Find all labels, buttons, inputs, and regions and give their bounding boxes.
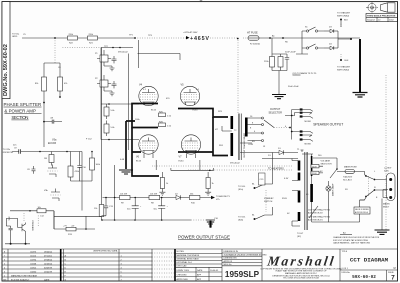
switch S1 mains pole b	[302, 44, 324, 49]
wire heater stubs	[144, 154, 200, 170]
svg-text:UNSPECIFIED Mk2 DATA: UNSPECIFIED Mk2 DATA	[93, 250, 118, 253]
diode D4	[324, 44, 338, 50]
svg-text:C6115: C6115	[30, 255, 37, 257]
node TO S.B. S2a	[238, 184, 265, 192]
svg-text:10k 5W: 10k 5W	[150, 194, 157, 196]
resistor R11b cathode V7	[205, 172, 215, 195]
svg-text:TO STANDBY: TO STANDBY	[337, 12, 351, 15]
svg-text:C5905: C5905	[30, 267, 37, 269]
svg-text:50uF+50uF: 50uF+50uF	[285, 52, 296, 54]
svg-text:59X-60-02: 59X-60-02	[352, 275, 376, 280]
svg-text:NEON IS WIRED: NEON IS WIRED	[355, 209, 370, 211]
svg-text:L=230V: L=230V	[384, 168, 392, 170]
svg-text:DATE: DATE	[197, 269, 203, 272]
svg-text:50uF+50uF: 50uF+50uF	[288, 86, 299, 88]
svg-text:EXTERNAL R=1: EXTERNAL R=1	[177, 261, 193, 264]
wire grid V4	[101, 103, 139, 105]
capacitor C9 input	[12, 145, 40, 154]
standby switch label	[259, 173, 275, 203]
wire switch link	[302, 31, 351, 48]
DWG number box top-left	[2, 2, 10, 99]
diode D3	[324, 27, 338, 33]
resistor R18 screen feed	[94, 48, 104, 217]
svg-text:MAINS FUSE: MAINS FUSE	[344, 166, 357, 169]
node TO S.B. S2b	[238, 215, 265, 222]
svg-text:10k 5W: 10k 5W	[120, 194, 127, 196]
wire HT secondary	[240, 143, 298, 159]
title block model column 1959SLP	[222, 249, 267, 281]
svg-text:Marshall: Marshall	[265, 254, 334, 269]
title block notes column	[175, 249, 222, 281]
svg-text:DIMENSIONS: DIMENSIONS	[224, 258, 238, 260]
svg-text:INPUT: INPUT	[383, 207, 390, 209]
svg-text:C5948: C5948	[30, 263, 37, 265]
wire grid bus left	[128, 54, 130, 151]
svg-text:TITLE: TITLE	[342, 251, 348, 253]
svg-text:OUTPUT TRANSFORMER: OUTPUT TRANSFORMER	[243, 132, 246, 158]
switch S1 mains pole a	[302, 27, 324, 33]
svg-text:BLK: BLK	[345, 60, 350, 62]
svg-text:SECTION: SECTION	[11, 115, 28, 120]
svg-text:CCT DIAGRAM: CCT DIAGRAM	[350, 257, 389, 264]
svg-text:13/02/99: 13/02/99	[44, 271, 53, 273]
ground chassis main	[359, 39, 361, 92]
svg-text:SLO-BLO: SLO-BLO	[343, 180, 352, 182]
svg-text:EL34: EL34	[179, 161, 185, 163]
valve V4 EL34	[139, 84, 158, 112]
output transformer T2	[230, 114, 246, 165]
wire anode V4 thick	[132, 104, 158, 128]
svg-text:MAINS: MAINS	[383, 203, 390, 206]
diode D1	[278, 148, 284, 155]
svg-text:POWER OUTPUT STAGE: POWER OUTPUT STAGE	[178, 234, 230, 239]
revision table	[2, 249, 398, 281]
svg-text:1M: 1M	[44, 158, 47, 160]
svg-text:TO HT: TO HT	[297, 233, 304, 235]
svg-text:CHANGE LINKS DR+E2 HOOKS UP FR: CHANGE LINKS DR+E2 HOOKS UP FROM THE PCB	[333, 236, 380, 239]
svg-text:+470V AT 240V: +470V AT 240V	[183, 31, 198, 34]
svg-text:PHASE SPLITTER: PHASE SPLITTER	[4, 102, 42, 107]
svg-text:DWG.No. 59X-60-02: DWG.No. 59X-60-02	[3, 44, 9, 96]
svg-text:APPROVED: APPROVED	[177, 278, 189, 281]
resistor R20 grid stopper	[104, 121, 115, 137]
wire top bus	[22, 37, 135, 39]
svg-text:CABLE HARNESS + MAY NOT HAVE D: CABLE HARNESS + MAY NOT HAVE DWG	[333, 242, 371, 245]
capacitor C14 electrolytic	[127, 198, 142, 221]
fuse F1 mains	[337, 166, 365, 182]
resistor R22	[68, 34, 78, 44]
top centre fold mark	[200, 0, 203, 2]
note change links	[333, 232, 380, 245]
wire standby links	[265, 153, 273, 216]
wire PI input bus	[40, 151, 82, 153]
triode V3a symbol	[48, 165, 58, 178]
svg-text:470k: 470k	[7, 217, 9, 221]
svg-text:SWITCH(S2): SWITCH(S2)	[337, 70, 349, 72]
svg-text:ISSUE: ISSUE	[388, 272, 394, 274]
title / dwg number block	[340, 251, 398, 281]
jack J1 speaker	[300, 108, 313, 123]
resistor R16 tail	[68, 152, 80, 182]
svg-text:BLK: BLK	[344, 20, 349, 22]
svg-text:VOLTAGE: VOLTAGE	[321, 160, 331, 163]
valve V5 EL34	[180, 84, 199, 112]
svg-text:07/11/01: 07/11/01	[44, 255, 53, 257]
lamp mains neon	[309, 181, 335, 222]
svg-text:MFG.No: MFG.No	[224, 264, 233, 266]
resistor R9	[120, 194, 131, 205]
svg-text:1 OF 1: 1 OF 1	[342, 268, 349, 270]
resistor R8	[149, 194, 160, 205]
ground mains earth	[381, 199, 383, 231]
do-not-scale table top right	[366, 14, 398, 22]
svg-text:ECN ISS SUBJECT: ECN ISS SUBJECT	[11, 279, 30, 281]
label speckle	[23, 34, 378, 199]
svg-text:& POWER AMP: & POWER AMP	[4, 109, 36, 114]
svg-text:MAINS LAMP: MAINS LAMP	[332, 183, 335, 196]
wire bias to grids	[100, 48, 102, 105]
svg-text:SELECTOR: SELECTOR	[321, 164, 333, 166]
resistor R15	[44, 152, 54, 166]
note voltage links	[308, 209, 331, 222]
wire mains feed stub	[296, 48, 308, 54]
resistor R25 screen	[159, 111, 172, 117]
IEC mains inlet connector	[383, 168, 395, 209]
svg-text:1959SLP: 1959SLP	[225, 270, 260, 279]
svg-text:DIMENSION IN: DIMENSION IN	[224, 251, 239, 253]
svg-text:TO S.B.: TO S.B.	[238, 186, 246, 188]
wire OT secondary taps	[248, 118, 262, 141]
svg-text:DRWN T.JES: DRWN T.JES	[177, 270, 190, 272]
wire dropper vertical	[54, 38, 56, 63]
capacitor C7 feedback	[44, 118, 62, 124]
svg-text:(S2): (S2)	[297, 236, 301, 238]
jack J2 speaker	[300, 130, 313, 145]
wire PI outputs	[54, 152, 83, 230]
svg-text:Issue 2: Issue 2	[368, 20, 376, 22]
svg-text:240V: 240V	[312, 166, 317, 168]
svg-text:30/09/99: 30/09/99	[44, 267, 53, 269]
capacitor C11 presence	[6, 226, 12, 244]
svg-text:EL34: EL34	[151, 110, 157, 112]
resistor R19 grid stopper	[104, 104, 115, 119]
svg-text:TOLERANCE UNLESS OTHERWISE STA: TOLERANCE UNLESS OTHERWISE STATED	[224, 253, 268, 256]
svg-text:09/08/00: 09/08/00	[44, 259, 53, 261]
resistor R26 screen	[159, 121, 172, 127]
resistor R14	[58, 77, 69, 98]
wire jack feed	[285, 110, 300, 140]
node TO ANODE TX	[211, 195, 231, 201]
svg-text:GENERAL BEND RADII: GENERAL BEND RADII	[177, 258, 200, 261]
ground heavy bottom bus	[206, 219, 215, 221]
fold mark right	[385, 75, 387, 230]
svg-text:MATERIAL THICKNESS: MATERIAL THICKNESS	[177, 254, 200, 257]
svg-text:ACROSS DR+E2: ACROSS DR+E2	[308, 211, 323, 214]
svg-text:APP: APP	[197, 278, 202, 281]
note neon wiring box	[354, 207, 370, 214]
PHASE SPLITTER caption	[4, 102, 42, 120]
wire screen riser	[114, 165, 116, 198]
svg-text:6.3V: 6.3V	[284, 178, 289, 180]
resistor R21	[88, 34, 98, 44]
resistor R11 cathode V6	[159, 172, 169, 195]
wire feedback tee	[44, 63, 60, 77]
svg-text:(S1) TO MAINS TX P.LTD: (S1) TO MAINS TX P.LTD	[293, 72, 317, 75]
resistor R10	[189, 194, 200, 205]
svg-text:TO S.B.: TO S.B.	[238, 217, 246, 219]
resistor R17	[10, 207, 54, 218]
svg-text:TO ANODE TX: TO ANODE TX	[216, 195, 231, 198]
wire anode V6 thick	[132, 128, 159, 177]
capacitor C8 left	[27, 166, 36, 174]
ground cathode	[119, 170, 133, 174]
svg-text:(S2b): (S2b)	[238, 220, 243, 222]
svg-text:240V (NEUTRAL) FITTED: 240V (NEUTRAL) FITTED	[308, 216, 331, 219]
svg-text:+7V: +7V	[63, 225, 67, 227]
svg-text:MANUFACTURE RELEASE: MANUFACTURE RELEASE	[11, 274, 38, 277]
supply rail chain	[103, 197, 214, 199]
valve V6 EL34	[136, 135, 158, 163]
svg-text:350V: 350V	[282, 198, 287, 200]
projection cone symbol	[381, 3, 396, 12]
wire grid return staple	[171, 168, 214, 170]
svg-text:SELECTOR: SELECTOR	[269, 112, 283, 115]
svg-text:FROM P.A.: FROM P.A.	[3, 151, 14, 154]
svg-text:14/03/00: 14/03/00	[44, 263, 53, 265]
svg-text:TO HEATERS: TO HEATERS	[268, 168, 284, 171]
wire OT centre tap	[222, 126, 232, 131]
svg-text:50Hz: 50Hz	[384, 171, 389, 173]
wire heater bus	[152, 166, 293, 170]
svg-text:18/04/02: 18/04/02	[44, 251, 53, 253]
svg-text:EL34: EL34	[193, 110, 199, 112]
svg-text:10-04-01: 10-04-01	[210, 270, 219, 272]
capacitor C10	[77, 152, 86, 182]
wire HT to switch	[259, 37, 360, 39]
capacitor C15 electrolytic	[154, 198, 169, 221]
svg-text:CHECKED: CHECKED	[177, 275, 188, 277]
resistor R7 bias	[278, 54, 283, 71]
triode V3b symbol	[44, 189, 61, 202]
svg-text:C6373: C6373	[30, 251, 37, 253]
resistor R13 feedback	[54, 216, 95, 236]
output selector switch	[262, 108, 291, 142]
svg-text:COM: COM	[248, 144, 253, 146]
wire lower links	[102, 198, 115, 221]
svg-text:PRESENCE: PRESENCE	[31, 221, 33, 232]
resistor R13	[35, 77, 47, 147]
wire bias join	[272, 54, 287, 94]
svg-text:8Ω: 8Ω	[252, 141, 255, 143]
node TO STANDBY SWITCH top	[337, 12, 351, 28]
svg-text:APP: APP	[197, 274, 202, 277]
svg-text:SWITCH(S2): SWITCH(S2)	[337, 16, 349, 18]
svg-text:MONO: MONO	[305, 121, 312, 123]
wire anode V7 thick	[178, 117, 228, 156]
transistor Q1 presence	[6, 217, 33, 244]
svg-text:MONO: MONO	[305, 143, 312, 145]
wire grid feed	[138, 54, 181, 61]
node TO STANDBY SWITCH lower	[337, 54, 351, 72]
svg-text:TO V2b: TO V2b	[3, 149, 11, 151]
fuse F2 HT	[247, 32, 260, 46]
trimmer P2 bias	[95, 75, 117, 91]
wire bias feed	[272, 38, 284, 54]
ground bias supply	[272, 95, 286, 99]
wire HT winding taps	[292, 159, 300, 227]
svg-text:+465V: +465V	[190, 36, 209, 42]
svg-text:SWITCH: SWITCH	[264, 201, 273, 203]
node junction dots top bus	[54, 37, 56, 39]
wire cathode bus thick	[126, 121, 135, 169]
wire grid V6	[101, 104, 139, 140]
svg-text:220V: 220V	[312, 173, 317, 175]
svg-text:GRID: GRID	[12, 36, 18, 38]
svg-text:SPEAKER OUTPUT: SPEAKER OUTPUT	[313, 123, 343, 127]
svg-text:APPROX: APPROX	[224, 260, 233, 263]
ground bias P2	[104, 91, 115, 96]
svg-text:TEL 01908 375411 FAX 01908 37: TEL 01908 375411 FAX 01908 376118	[283, 277, 320, 280]
svg-text:ACROSS DR+E: ACROSS DR+E	[355, 211, 369, 214]
capacitor C4 bias	[285, 52, 297, 63]
diode D2	[175, 194, 181, 200]
svg-text:TO STANDBY: TO STANDBY	[337, 66, 351, 69]
wire presence bus	[5, 243, 30, 245]
switch mains pole contacts	[360, 175, 389, 201]
svg-text:F C12: F C12	[86, 139, 93, 141]
svg-text:DWG.No: DWG.No	[342, 272, 351, 274]
svg-text:EL34: EL34	[136, 161, 142, 163]
svg-text:220V (NEUTRAL) FITTED: 220V (NEUTRAL) FITTED	[308, 209, 331, 212]
svg-text:HT FUSE: HT FUSE	[247, 32, 258, 35]
wire anode V5 thick	[178, 109, 228, 118]
svg-text:T4A 250V: T4A 250V	[343, 176, 353, 179]
wire feedback mid	[54, 211, 102, 229]
svg-text:(S2a): (S2a)	[238, 189, 243, 191]
capacitor C13	[102, 198, 114, 216]
trimmer P1 bias	[95, 50, 117, 66]
ground bias P1	[104, 66, 115, 71]
svg-text:NOTES:: NOTES:	[177, 251, 185, 253]
svg-text:59X-60-02: 59X-60-02	[118, 52, 129, 54]
wire bottom bus	[102, 219, 191, 221]
valve V7 EL34	[179, 135, 201, 163]
svg-text:DATE: DATE	[44, 278, 50, 281]
svg-text:C5994: C5994	[30, 259, 37, 261]
mains transformer T1	[299, 152, 312, 230]
third angle projection symbol	[366, 2, 378, 14]
wire screen join	[138, 40, 140, 68]
resistor R14b	[83, 151, 101, 181]
wire screen bus dashed	[63, 47, 102, 49]
wire mains routing	[301, 150, 365, 222]
svg-text:7: 7	[391, 275, 395, 282]
svg-text:ACROSS DR+E1: ACROSS DR+E1	[308, 218, 323, 221]
resistor R5 bias	[264, 54, 275, 71]
svg-text:59X-40-02: 59X-40-02	[230, 163, 241, 165]
svg-text:DWG CAD: DWG CAD	[177, 265, 188, 268]
svg-text:M: M	[394, 267, 396, 270]
svg-text:F2 500mA: F2 500mA	[250, 43, 260, 46]
voltage selector	[311, 158, 338, 178]
svg-text:ECC83: ECC83	[48, 142, 57, 145]
svg-text:THIRD ANGLE PROJECTION: THIRD ANGLE PROJECTION	[367, 14, 396, 17]
svg-text:FOR VOLT UPDATE TAP & REROUTIN: FOR VOLT UPDATE TAP & REROUTING	[333, 239, 369, 242]
svg-text:C5830: C5830	[30, 271, 37, 273]
node +465V supply label	[183, 31, 209, 42]
Marshall logo block	[260, 249, 342, 281]
svg-text:STANDBY: STANDBY	[264, 197, 274, 200]
